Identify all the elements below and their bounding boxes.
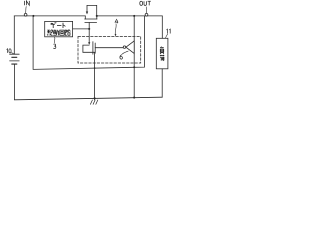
label 4 [115,19,118,23]
IC box outline (left, bottom, right edges) [33,16,144,70]
label 11 [167,29,171,33]
node dot sense/bottom rail [133,97,135,99]
node dot sense/box bottom [133,66,135,68]
node dot IN/box corner [32,15,34,17]
wire gate drive output [73,28,90,30]
路 [65,30,70,35]
leader OUT [145,7,147,13]
駆 [47,30,53,36]
ground hatches [90,100,97,104]
gate drive circuit box 3 [45,21,73,36]
回 [60,30,64,35]
transistor Q2 channel bar [92,42,94,55]
transistor Q2 body loop [83,45,95,52]
label IN [25,1,30,5]
wire Q2 source to ground rail [94,52,96,98]
ー [57,25,61,27]
node dot ground/bottom rail [94,97,96,99]
leader 3 [53,37,55,43]
leader 10 [12,53,15,55]
label 3 [53,44,56,49]
wire top rail left (IN side) [14,15,85,17]
wire sense line OUT node to bottom rail [133,16,135,98]
inverter U1 triangle [126,41,134,54]
dashed box 4 (reverse-current block) [78,37,141,64]
wire battery feed down [13,16,15,54]
battery B1 (supply 10) [10,54,20,64]
inverter U1 bubble [123,46,126,49]
wire gate of Q2 to inverter output [95,47,123,49]
leader 4 [114,24,117,35]
ゲ [51,22,57,28]
wire load bottom [161,69,163,98]
leader 11 [165,34,167,38]
text gate drive circuit (ゲート) pseudo-glyphs [47,22,70,35]
node dot Q1 drain/rail [96,15,98,17]
transistor Q1 gate bar [85,22,97,24]
荷 [160,55,164,61]
transistor Q1 body loop [87,5,97,16]
transistor Q1 main MOSFET: source stub [84,16,86,19]
wire top rail right (OUT side) [97,15,163,17]
label 6 [120,55,123,59]
label OUT [140,1,151,5]
node dot sense/rail [133,15,135,17]
leader 6 [122,51,129,54]
wire load drop from OUT [161,16,163,38]
wire battery negative down [13,64,15,100]
ト [63,23,65,28]
wire bottom rail [14,97,162,100]
node dot gate junction [88,28,90,30]
leader 4 arrowhead [115,34,117,37]
ground stub [94,98,96,100]
terminal OUT circle [145,13,148,16]
動 [53,30,58,36]
transistor Q1 drain stub [96,16,98,19]
load box 11 [156,38,168,69]
transistor Q1 channel bar [85,18,97,20]
leader IN [25,7,28,14]
transistor Q2 gate bar [94,43,96,53]
負 [160,47,164,54]
wire gate lead down to Q2 drain [88,23,90,44]
node dot source/box bottom [94,67,96,69]
transistor Q1 body arrow [86,12,88,15]
text load (負荷) pseudo-glyphs [160,47,164,61]
transistor Q2 drain arrow [88,42,90,45]
terminal IN circle [24,13,27,16]
label 10 [7,49,12,53]
